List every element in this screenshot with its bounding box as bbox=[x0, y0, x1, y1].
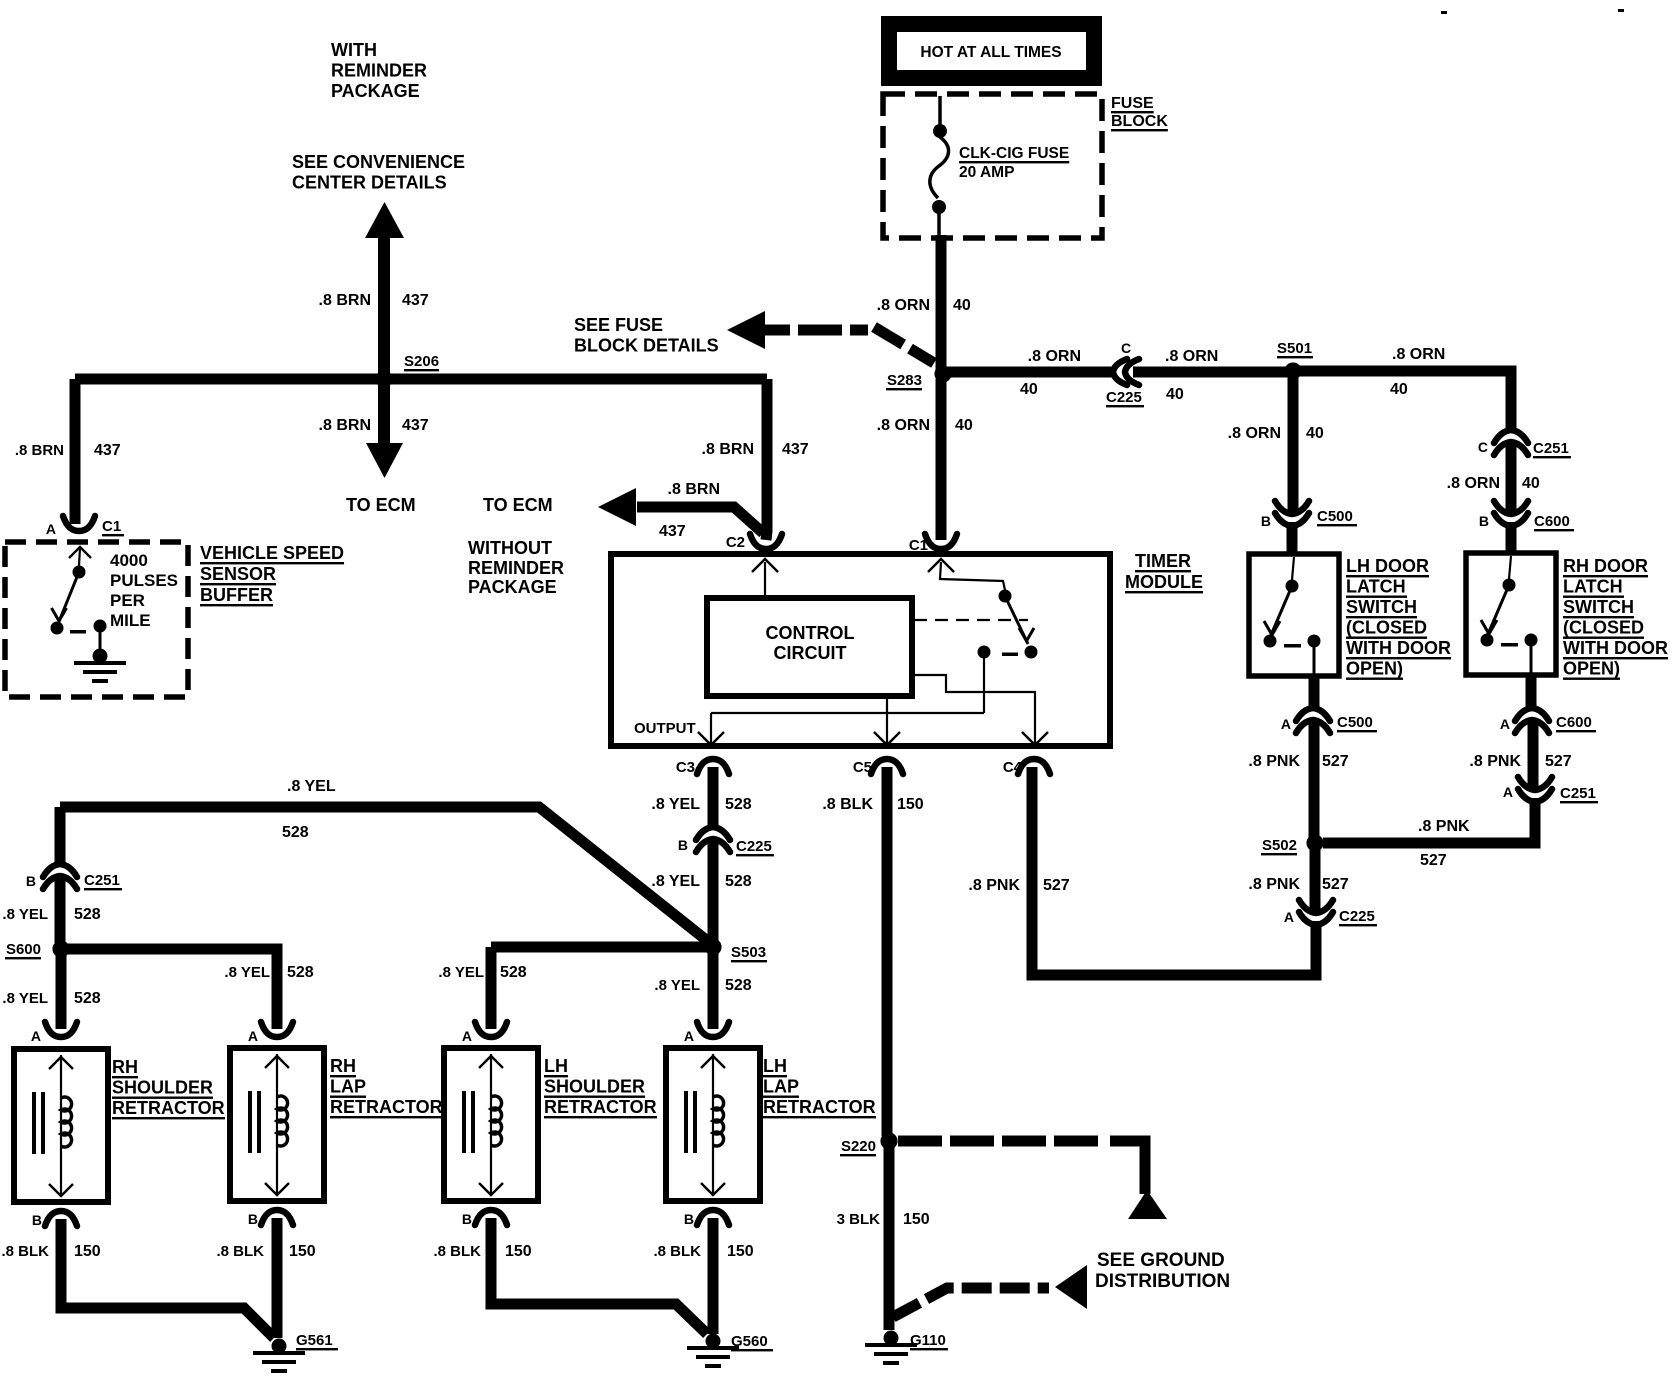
wire: .8 YEL 528 to LH shoulder retractor bbox=[491, 942, 708, 953]
connector C3 fork bbox=[697, 759, 729, 774]
connector C251 (B terminal) bbox=[43, 864, 77, 877]
svg-text:SEE FUSE: SEE FUSE bbox=[574, 315, 663, 335]
wire: 3 BLK 150 S220 to G110 bbox=[884, 1146, 895, 1330]
svg-text:.8 YEL: .8 YEL bbox=[651, 796, 700, 813]
VSS switch contact (bottom left) bbox=[51, 622, 64, 635]
svg-text:150: 150 bbox=[727, 1243, 754, 1260]
svg-text:A: A bbox=[248, 1028, 258, 1044]
wire output to C3 bbox=[710, 713, 712, 743]
svg-text:C5: C5 bbox=[853, 759, 872, 776]
svg-text:S206: S206 bbox=[404, 353, 439, 370]
RH door latch switch bbox=[1466, 553, 1556, 675]
node S206 bbox=[376, 371, 393, 388]
svg-text:OPEN): OPEN) bbox=[1563, 659, 1620, 679]
wire C1 to timer switch bbox=[940, 562, 1005, 590]
wire to ground bbox=[99, 626, 102, 650]
svg-text:BUFFER: BUFFER bbox=[200, 585, 273, 605]
svg-text:LATCH: LATCH bbox=[1346, 577, 1406, 597]
svg-text:.8 ORN: .8 ORN bbox=[1165, 348, 1218, 365]
svg-text:SHOULDER: SHOULDER bbox=[544, 1077, 645, 1097]
svg-text:A: A bbox=[1284, 909, 1294, 925]
connector C1 fork at timer module bbox=[925, 534, 957, 549]
svg-text:527: 527 bbox=[1322, 876, 1349, 893]
svg-text:MILE: MILE bbox=[110, 611, 151, 630]
svg-text:C251: C251 bbox=[1560, 785, 1596, 802]
svg-text:.8 BRN: .8 BRN bbox=[668, 481, 720, 498]
connector C4 fork bbox=[1018, 759, 1050, 774]
connector C251 (C terminal, RH branch) bbox=[1494, 430, 1528, 443]
connector A fork LH lap bbox=[697, 1022, 729, 1037]
node S220 (dot) bbox=[881, 1133, 898, 1150]
svg-text:.8 YEL: .8 YEL bbox=[651, 873, 700, 890]
svg-text:RETRACTOR: RETRACTOR bbox=[763, 1097, 876, 1117]
wire: .8 BLK 150 from C5 to S220 bbox=[882, 767, 893, 1136]
svg-text:S283: S283 bbox=[887, 372, 922, 389]
node S600 bbox=[53, 941, 70, 958]
svg-text:BLOCK DETAILS: BLOCK DETAILS bbox=[574, 336, 719, 356]
RH lap retractor bbox=[230, 1048, 324, 1201]
svg-text:FUSE: FUSE bbox=[1111, 95, 1154, 112]
svg-text:G560: G560 bbox=[731, 1333, 768, 1350]
wire: .8 BRN 437 down to C2 bbox=[766, 379, 767, 540]
wire: .8 PNK 527 to S502 bbox=[1323, 798, 1535, 843]
svg-text:.8 YEL: .8 YEL bbox=[2, 990, 48, 1007]
svg-text:C2: C2 bbox=[726, 534, 745, 551]
svg-text:PACKAGE: PACKAGE bbox=[331, 81, 420, 101]
svg-text:.8 BLK: .8 BLK bbox=[822, 796, 873, 813]
wire: .8 ORN 40 to timer C1 bbox=[936, 379, 947, 540]
svg-text:C500: C500 bbox=[1337, 714, 1373, 731]
wire control circuit to C5 bbox=[886, 696, 888, 743]
svg-text:CIRCUIT: CIRCUIT bbox=[774, 643, 847, 663]
svg-text:B: B bbox=[678, 837, 688, 853]
svg-text:C: C bbox=[1478, 439, 1488, 455]
connector A fork RH shoulder bbox=[45, 1022, 77, 1037]
connector C600 (A terminal) bbox=[1515, 708, 1549, 721]
svg-text:437: 437 bbox=[94, 442, 121, 459]
svg-text:C225: C225 bbox=[736, 838, 772, 855]
svg-text:C600: C600 bbox=[1534, 513, 1570, 530]
svg-text:WITH DOOR: WITH DOOR bbox=[1563, 638, 1668, 658]
connector C225 (in-line, C terminal) bbox=[1113, 359, 1127, 385]
svg-text:B: B bbox=[1479, 513, 1489, 529]
svg-text:.8 YEL: .8 YEL bbox=[287, 778, 336, 795]
svg-text:.8 ORN: .8 ORN bbox=[877, 417, 930, 434]
svg-text:40: 40 bbox=[1390, 381, 1408, 398]
svg-text:C3: C3 bbox=[676, 759, 695, 776]
svg-text:.8 YEL: .8 YEL bbox=[2, 906, 48, 923]
svg-text:A: A bbox=[31, 1028, 41, 1044]
svg-text:528: 528 bbox=[500, 964, 527, 981]
connector C5 fork bbox=[871, 759, 903, 774]
node S503 bbox=[705, 939, 722, 956]
svg-text:C: C bbox=[1121, 340, 1131, 356]
wire C2 to control circuit bbox=[764, 562, 766, 595]
svg-text:.8 BRN: .8 BRN bbox=[15, 442, 64, 459]
timer switch contact (bottom right) bbox=[1025, 646, 1038, 659]
LH door latch switch bbox=[1249, 554, 1339, 676]
svg-text:B: B bbox=[1261, 513, 1271, 529]
vehicle speed sensor buffer (dashed box) bbox=[5, 542, 188, 697]
svg-text:40: 40 bbox=[1522, 475, 1540, 492]
wire: .8 YEL 528 from C3 bbox=[708, 767, 719, 828]
wire: .8 YEL 528 to LH lap retractor bbox=[708, 952, 719, 1029]
svg-text:528: 528 bbox=[725, 977, 752, 994]
node S501 (dot) bbox=[1285, 363, 1302, 380]
svg-text:B: B bbox=[26, 873, 36, 889]
svg-text:SEE CONVENIENCE: SEE CONVENIENCE bbox=[292, 152, 465, 172]
svg-text:.8 YEL: .8 YEL bbox=[438, 964, 484, 981]
svg-text:G561: G561 bbox=[296, 1332, 333, 1349]
svg-text:C251: C251 bbox=[84, 872, 120, 889]
svg-text:C225: C225 bbox=[1339, 908, 1375, 925]
off-page triangle (up) bbox=[1128, 1190, 1167, 1219]
svg-text:VEHICLE SPEED: VEHICLE SPEED bbox=[200, 543, 344, 563]
VSS pin arrow bbox=[69, 547, 91, 558]
HOT AT ALL TIMES box bbox=[881, 16, 1102, 86]
svg-text:.8 BLK: .8 BLK bbox=[653, 1243, 701, 1260]
wire: .8 BLK 150 LH lap to G560 bbox=[708, 1218, 719, 1334]
svg-text:B: B bbox=[462, 1211, 472, 1227]
svg-text:3 BLK: 3 BLK bbox=[837, 1211, 881, 1228]
svg-text:C600: C600 bbox=[1556, 714, 1592, 731]
wire: .8 PNK 527 to S502 bbox=[1309, 719, 1320, 838]
wire: RH switch to C600-A bbox=[1526, 676, 1537, 709]
svg-text:528: 528 bbox=[725, 796, 752, 813]
wire: .8 ORN 40 to S501 bbox=[1133, 367, 1289, 378]
svg-text:150: 150 bbox=[505, 1243, 532, 1260]
svg-text:S600: S600 bbox=[6, 941, 41, 958]
node S283 bbox=[935, 366, 952, 383]
ground G560 bbox=[706, 1334, 721, 1349]
svg-text:.8 ORN: .8 ORN bbox=[1447, 475, 1500, 492]
svg-text:528: 528 bbox=[725, 873, 752, 890]
svg-text:S220: S220 bbox=[841, 1138, 876, 1155]
connector C225 (A terminal) bbox=[1299, 900, 1333, 913]
node S283 (dot) bbox=[935, 366, 952, 383]
svg-text:40: 40 bbox=[953, 297, 971, 314]
svg-text:40: 40 bbox=[1020, 381, 1038, 398]
svg-text:CENTER DETAILS: CENTER DETAILS bbox=[292, 173, 447, 193]
wire: .8 YEL 528 to RH shoulder retractor bbox=[56, 954, 67, 1029]
svg-text:150: 150 bbox=[74, 1243, 101, 1260]
dashed wire: to see ground distribution bbox=[893, 1288, 1049, 1317]
node S503 (dot) bbox=[705, 939, 722, 956]
svg-text:A: A bbox=[1500, 716, 1510, 732]
svg-text:LAP: LAP bbox=[330, 1077, 366, 1097]
svg-text:DISTRIBUTION: DISTRIBUTION bbox=[1095, 1271, 1230, 1292]
svg-text:LH: LH bbox=[544, 1056, 568, 1076]
svg-text:528: 528 bbox=[287, 964, 314, 981]
RH shoulder retractor bbox=[14, 1049, 108, 1202]
connector C2 fork at timer module bbox=[750, 534, 782, 549]
wire: .8 PNK 527 C225 to timer C4 bbox=[1032, 767, 1316, 975]
arrow triangle (left) bbox=[1055, 1265, 1087, 1309]
wire: LH switch to C500-A bbox=[1309, 676, 1320, 709]
timer module box bbox=[611, 554, 1110, 746]
svg-text:TO ECM: TO ECM bbox=[483, 495, 553, 515]
svg-text:40: 40 bbox=[955, 417, 973, 434]
ground inside VSS buffer bbox=[93, 649, 108, 664]
svg-text:527: 527 bbox=[1545, 753, 1572, 770]
connector C500 (B terminal) bbox=[1275, 501, 1309, 514]
svg-text:4000: 4000 bbox=[110, 551, 148, 570]
svg-text:WITH DOOR: WITH DOOR bbox=[1346, 638, 1451, 658]
svg-text:.8 PNK: .8 PNK bbox=[1248, 876, 1300, 893]
wire: .8 BLK 150 RH shoulder to G561 bbox=[61, 1219, 274, 1338]
fuse block (dashed box) bbox=[883, 94, 1102, 238]
connector B fork RH shoulder bbox=[45, 1211, 77, 1226]
svg-text:150: 150 bbox=[289, 1243, 316, 1260]
wire: .8 ORN 40 S501 to C500 bbox=[1288, 376, 1299, 512]
wire: .8 BRN 437 down arrow to ECM bbox=[378, 384, 390, 446]
svg-text:SHOULDER: SHOULDER bbox=[112, 1078, 213, 1098]
VSS switch throw dash bbox=[70, 630, 86, 634]
ground G110 bbox=[884, 1331, 899, 1346]
connector C600 (B terminal) bbox=[1494, 501, 1528, 514]
connector B fork LH shoulder bbox=[475, 1210, 507, 1225]
connector A fork LH shoulder bbox=[475, 1022, 507, 1037]
svg-text:527: 527 bbox=[1322, 753, 1349, 770]
svg-text:.8 ORN: .8 ORN bbox=[1028, 348, 1081, 365]
node S501 bbox=[1285, 363, 1302, 380]
svg-text:RH DOOR: RH DOOR bbox=[1563, 556, 1648, 576]
svg-text:LH: LH bbox=[763, 1056, 787, 1076]
dashed wire: S220 to ground distribution (right) bbox=[898, 1136, 1104, 1147]
wire: .8 ORN 40 C251 to C600 bbox=[1506, 441, 1517, 512]
node S206 (dot) bbox=[376, 371, 393, 388]
svg-text:.8 BLK: .8 BLK bbox=[216, 1243, 264, 1260]
timer pin C1 arrow bbox=[928, 559, 954, 572]
node S220 bbox=[881, 1133, 898, 1150]
svg-text:CONTROL: CONTROL bbox=[766, 623, 855, 643]
timer pin C5 arrow bbox=[874, 732, 900, 745]
svg-text:527: 527 bbox=[1043, 877, 1070, 894]
wire: .8 PNK 527 C600 to C251 bbox=[1528, 719, 1539, 788]
timer pin C2 arrow bbox=[752, 559, 778, 572]
fuse CLK-CIG 20 AMP bbox=[938, 96, 942, 126]
connector C500 (A terminal) bbox=[1296, 708, 1330, 721]
VSS switch contact (top) bbox=[73, 566, 86, 579]
svg-text:437: 437 bbox=[402, 417, 429, 434]
svg-text:PER: PER bbox=[110, 591, 145, 610]
svg-text:150: 150 bbox=[897, 796, 924, 813]
svg-text:SWITCH: SWITCH bbox=[1563, 597, 1634, 617]
svg-text:LAP: LAP bbox=[763, 1077, 799, 1097]
VSS switch contact (right) bbox=[94, 620, 107, 633]
svg-text:LATCH: LATCH bbox=[1563, 577, 1623, 597]
timer switch throw dash bbox=[1002, 653, 1018, 657]
wire: .8 YEL to C251-B bbox=[55, 807, 66, 865]
svg-text:RETRACTOR: RETRACTOR bbox=[112, 1098, 225, 1118]
svg-text:WITHOUT: WITHOUT bbox=[468, 538, 552, 558]
svg-text:528: 528 bbox=[74, 990, 101, 1007]
svg-text:40: 40 bbox=[1306, 425, 1324, 442]
connector B fork RH lap bbox=[261, 1210, 293, 1225]
svg-text:RH: RH bbox=[330, 1056, 356, 1076]
svg-text:REMINDER: REMINDER bbox=[331, 61, 427, 81]
svg-text:(CLOSED: (CLOSED bbox=[1563, 618, 1644, 638]
node S600 (dot) bbox=[53, 941, 70, 958]
wire: 437 horizontal bus from S206 bbox=[75, 374, 767, 385]
svg-text:.8 BRN: .8 BRN bbox=[702, 441, 754, 458]
svg-text:528: 528 bbox=[74, 906, 101, 923]
svg-text:TIMER: TIMER bbox=[1135, 551, 1191, 571]
wire to RH door latch switch bbox=[1506, 522, 1517, 553]
svg-text:A: A bbox=[1281, 716, 1291, 732]
VSS switch wire bbox=[79, 548, 80, 566]
svg-text:.8 BRN: .8 BRN bbox=[319, 292, 371, 309]
svg-text:C500: C500 bbox=[1317, 508, 1353, 525]
svg-text:.8 ORN: .8 ORN bbox=[1392, 346, 1445, 363]
svg-text:SEE GROUND: SEE GROUND bbox=[1097, 1250, 1225, 1271]
svg-text:437: 437 bbox=[782, 441, 809, 458]
svg-text:.8 YEL: .8 YEL bbox=[654, 977, 700, 994]
connector B fork LH lap bbox=[697, 1210, 729, 1225]
svg-text:RETRACTOR: RETRACTOR bbox=[330, 1097, 443, 1117]
connector C251 (A terminal) bbox=[1518, 777, 1552, 790]
svg-text:OUTPUT: OUTPUT bbox=[634, 720, 696, 737]
svg-text:WITH: WITH bbox=[331, 40, 377, 60]
svg-text:B: B bbox=[248, 1211, 258, 1227]
svg-text:C4: C4 bbox=[1003, 759, 1023, 776]
svg-text:B: B bbox=[684, 1211, 694, 1227]
svg-text:A: A bbox=[46, 521, 56, 537]
connector C225 (B terminal) bbox=[696, 827, 730, 840]
dashed control line bbox=[914, 619, 1028, 621]
svg-text:C1: C1 bbox=[102, 518, 121, 535]
svg-text:PACKAGE: PACKAGE bbox=[468, 577, 557, 597]
wire control circuit to C4 bbox=[914, 675, 1035, 743]
svg-text:OPEN): OPEN) bbox=[1346, 659, 1403, 679]
svg-text:.8 PNK: .8 PNK bbox=[1248, 753, 1300, 770]
svg-text:A: A bbox=[1503, 784, 1513, 800]
svg-text:PULSES: PULSES bbox=[110, 571, 178, 590]
timer pin C4 arrow bbox=[1022, 732, 1048, 745]
wire: .8 ORN 40 to C251 bbox=[1298, 371, 1511, 431]
svg-text:.8 PNK: .8 PNK bbox=[1469, 753, 1521, 770]
timer pin C3 arrow bbox=[698, 732, 724, 745]
wire: .8 BLK 150 LH shoulder to G560 bbox=[491, 1218, 707, 1334]
wire: .8 BRN 437 arrow to ECM (without reminder pkg) bbox=[637, 507, 763, 533]
svg-text:.8 ORN: .8 ORN bbox=[877, 297, 930, 314]
svg-text:40: 40 bbox=[1166, 386, 1184, 403]
svg-text:S502: S502 bbox=[1262, 837, 1297, 854]
svg-text:.8 BLK: .8 BLK bbox=[1, 1243, 49, 1260]
control circuit box bbox=[707, 598, 912, 696]
svg-text:MODULE: MODULE bbox=[1125, 572, 1203, 592]
wire: .8 YEL 528 to S503 bbox=[708, 838, 719, 942]
dashed arrow: see fuse block details bbox=[727, 311, 765, 349]
svg-text:527: 527 bbox=[1420, 852, 1447, 869]
connector C1 fork at VSS buffer bbox=[63, 516, 95, 531]
svg-text:SWITCH: SWITCH bbox=[1346, 597, 1417, 617]
svg-text:S503: S503 bbox=[731, 944, 766, 961]
wire: .8 YEL 528 bus to S503 bbox=[60, 807, 710, 943]
stray scan marks bbox=[1441, 11, 1447, 14]
wire: .8 YEL 528 to RH lap retractor bbox=[66, 949, 277, 1029]
wire: .8 BLK 150 RH lap to G561 bbox=[272, 1218, 283, 1338]
svg-text:.8 BLK: .8 BLK bbox=[433, 1243, 481, 1260]
svg-text:CLK-CIG FUSE: CLK-CIG FUSE bbox=[959, 145, 1069, 162]
svg-text:RH: RH bbox=[112, 1057, 138, 1077]
svg-text:.8 PNK: .8 PNK bbox=[968, 877, 1020, 894]
wire: .8 YEL 528 C251 to S600 bbox=[55, 875, 66, 944]
output line bbox=[711, 712, 984, 714]
svg-text:437: 437 bbox=[402, 292, 429, 309]
svg-text:G110: G110 bbox=[910, 1332, 946, 1349]
svg-text:20 AMP: 20 AMP bbox=[959, 164, 1014, 181]
svg-text:C251: C251 bbox=[1533, 440, 1569, 457]
svg-text:RETRACTOR: RETRACTOR bbox=[544, 1097, 657, 1117]
svg-text:C225: C225 bbox=[1106, 389, 1142, 406]
svg-text:.8 ORN: .8 ORN bbox=[1228, 425, 1281, 442]
svg-text:TO ECM: TO ECM bbox=[346, 495, 416, 515]
svg-text:REMINDER: REMINDER bbox=[468, 558, 564, 578]
svg-text:A: A bbox=[684, 1028, 694, 1044]
wire: .8 BRN 437 up arrow to convenience center bbox=[365, 202, 404, 238]
connector A fork RH lap bbox=[261, 1022, 293, 1037]
wire to LH door latch switch bbox=[1287, 522, 1298, 554]
wire: .8 PNK 527 S502 to C225-A bbox=[1310, 848, 1321, 911]
wire switch to output line bbox=[983, 652, 985, 713]
svg-text:528: 528 bbox=[282, 824, 309, 841]
VSS switch blade bbox=[58, 572, 79, 624]
svg-text:SENSOR: SENSOR bbox=[200, 564, 276, 584]
wire: .8 ORN 40 from fuse bbox=[936, 235, 947, 374]
svg-text:150: 150 bbox=[903, 1211, 930, 1228]
svg-text:HOT AT ALL TIMES: HOT AT ALL TIMES bbox=[920, 44, 1061, 61]
timer switch contact (left) bbox=[978, 646, 991, 659]
LH shoulder retractor bbox=[444, 1048, 538, 1201]
svg-text:LH DOOR: LH DOOR bbox=[1346, 556, 1429, 576]
wire: .8 BRN 437 to VSS buffer bbox=[70, 379, 81, 524]
node S502 (dot) bbox=[1307, 835, 1324, 852]
svg-text:S501: S501 bbox=[1277, 340, 1312, 357]
svg-text:.8 PNK: .8 PNK bbox=[1418, 818, 1470, 835]
wire: .8 ORN 40 to C225 bbox=[948, 367, 1113, 378]
node S502 bbox=[1307, 835, 1324, 852]
svg-text:BLOCK: BLOCK bbox=[1111, 113, 1168, 130]
svg-text:437: 437 bbox=[659, 523, 686, 540]
svg-text:A: A bbox=[462, 1028, 472, 1044]
timer switch contact (top) bbox=[999, 590, 1012, 603]
svg-text:B: B bbox=[32, 1212, 42, 1228]
timer switch blade bbox=[1005, 596, 1028, 644]
svg-text:.8 YEL: .8 YEL bbox=[224, 964, 270, 981]
LH lap retractor bbox=[666, 1048, 760, 1201]
svg-text:(CLOSED: (CLOSED bbox=[1346, 618, 1427, 638]
svg-text:.8 BRN: .8 BRN bbox=[319, 417, 371, 434]
ground G561 bbox=[272, 1339, 287, 1354]
